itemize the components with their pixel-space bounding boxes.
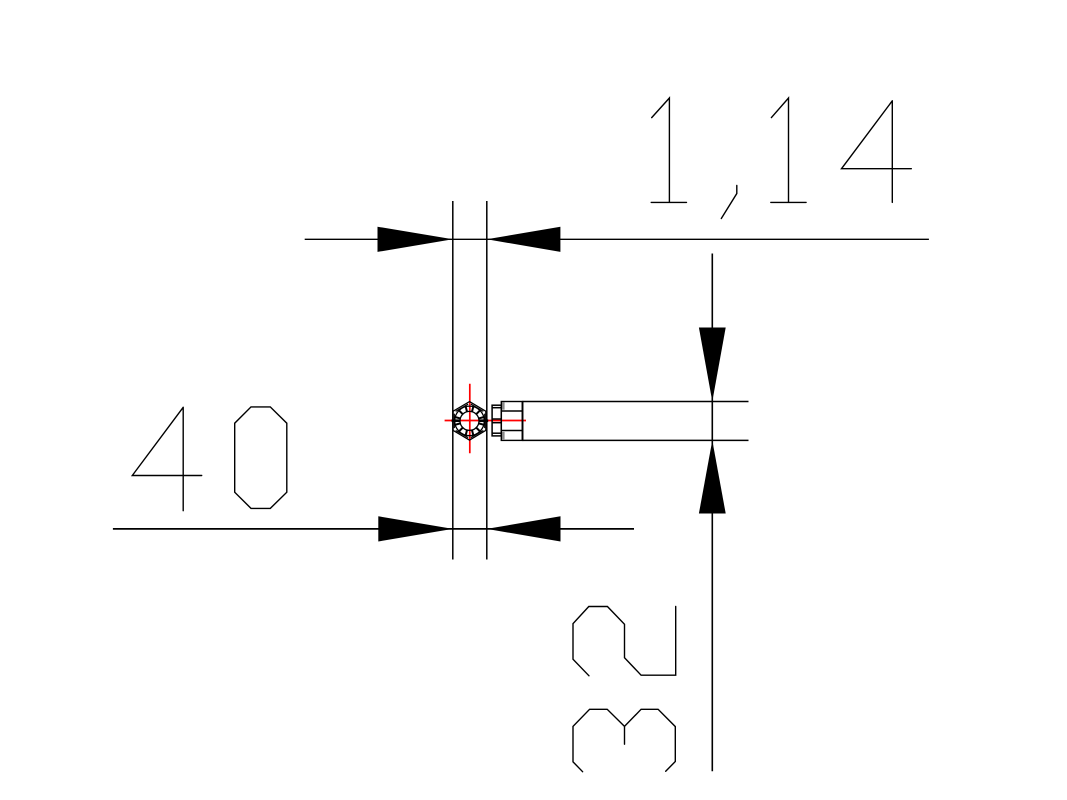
dimension text "40" (132, 407, 286, 511)
serrated ring side view (492, 405, 501, 436)
arrowhead top-right (487, 227, 561, 252)
dimension text "1,14" (651, 98, 911, 219)
arrowhead 32 bottom (699, 440, 726, 513)
comma (721, 186, 737, 219)
digit 4 (132, 407, 201, 510)
hex nut end view (452, 402, 489, 441)
red centerline horizontal (445, 420, 526, 422)
side bar right (3 o'clock) (479, 419, 488, 422)
serration spokes (12) (455, 407, 483, 435)
dimension line 40 (bottom horizontal) (113, 528, 634, 530)
digit 2 (rotated, upper glyph) (573, 607, 676, 676)
dimension line 32 (vertical) (711, 254, 713, 772)
arrowhead top-left (378, 227, 453, 252)
digit 4 (842, 101, 912, 203)
screw head side view (501, 402, 522, 441)
shank top line (523, 401, 749, 403)
head/shank junction line (522, 402, 524, 441)
extension line left (x=452.5) (452, 201, 454, 560)
dimension text "32" (rotated 90 deg ccw) (573, 607, 676, 772)
digit 1 (second) (771, 98, 806, 202)
chamfer chords (6, parallel to edges, tangent to outer circle) (454, 404, 484, 438)
arrowhead 32 top (699, 328, 726, 402)
red centerline vertical (469, 384, 471, 454)
digit 0 (235, 407, 287, 509)
side bar left (9 o'clock) (452, 419, 461, 422)
outer circle (455, 406, 485, 436)
shank bottom line (523, 439, 749, 441)
hexagon (453, 402, 486, 441)
arrowhead bottom-left (378, 516, 453, 541)
head chamfer shading bottom (502, 432, 505, 439)
bore circle (460, 411, 479, 430)
arrowhead bottom-right (487, 516, 561, 541)
digit 3 (rotated, lower glyph) (573, 709, 675, 771)
dimension line 1,14 (top horizontal) (305, 238, 929, 240)
digit 1 (first) (651, 98, 686, 202)
extension line right (x=486.6) (486, 201, 488, 560)
head chamfer shading top (502, 402, 505, 409)
